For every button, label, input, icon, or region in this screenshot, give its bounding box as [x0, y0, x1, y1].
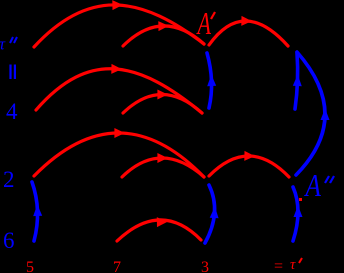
wire red arc row2 short	[123, 95, 202, 114]
arrowhead blue arc col1 up	[33, 205, 42, 217]
svg-text:4: 4	[6, 99, 18, 124]
wire red arc row3 long	[34, 133, 204, 177]
arrowhead blue arc col3 up2	[210, 207, 219, 219]
wire blue arc col3 up2	[205, 185, 215, 243]
label vertical equals	[11, 65, 15, 80]
svg-text:τ: τ	[290, 257, 296, 273]
svg-text:3: 3	[201, 259, 209, 273]
arrowhead blue arc long right	[321, 109, 330, 121]
wire red arc row1 right	[209, 21, 288, 46]
wire red arc row2 long	[36, 69, 202, 113]
wire blue arc col1 up	[32, 182, 38, 241]
svg-text:6: 6	[3, 228, 15, 253]
arrowhead red arc row1 right	[241, 16, 252, 26]
svg-text:A: A	[304, 169, 322, 203]
wire blue arc col4 up1	[295, 53, 298, 109]
arrowhead red arc row1 short	[158, 21, 169, 31]
arrowhead red arc row4	[157, 217, 168, 227]
svg-text:A: A	[196, 6, 211, 41]
wire red arc row3 short	[122, 158, 204, 177]
arrowhead red arc row3 long	[114, 128, 124, 138]
arrowhead red arc row2 short	[157, 90, 167, 100]
wire blue arc col3 up1	[207, 53, 212, 108]
wire blue arc long right	[296, 52, 325, 175]
arrowhead red arc row3 right	[244, 151, 255, 161]
arrowhead red arc row3 short	[157, 153, 167, 163]
arrowhead blue arc col4 up2	[294, 206, 303, 218]
small red dot artifact	[299, 198, 302, 201]
arrowhead blue arc col4 up1	[293, 75, 302, 87]
wire red arc row3 right	[209, 156, 289, 177]
svg-text:5: 5	[26, 259, 34, 273]
svg-text:2: 2	[3, 167, 15, 192]
arrowhead blue arc col3 up1	[207, 75, 216, 87]
wire red arc row4	[117, 220, 201, 241]
svg-text:=: =	[274, 258, 283, 273]
wire red arc row1 short	[123, 26, 204, 46]
wire blue arc col4 up2	[293, 187, 298, 241]
svg-text:7: 7	[113, 259, 121, 273]
arrowhead red arc row2 long	[111, 64, 122, 74]
arrowhead red arc row1 long	[112, 0, 123, 10]
wire red arc row1 long	[34, 5, 204, 47]
